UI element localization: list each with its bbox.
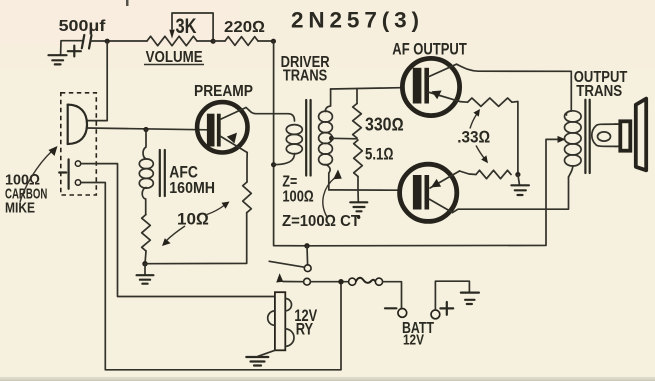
capacitor C1 500uF [68,35,92,56]
wire mike apex to preamp base [87,128,208,130]
inductor AFC 160MH [139,130,165,215]
node B junction dot after pot [211,39,216,44]
transformer DRIVER secondary [319,89,333,190]
wire 10ohm left to ground node [145,251,146,264]
arrow mike label to enclosure [20,146,58,202]
wire battery plus to ground [435,281,469,310]
wire pot to node [197,40,213,42]
node A junction dot at mike riser [105,39,110,44]
ground at battery plus [461,293,479,304]
transistor AF OUTPUT upper [402,58,460,115]
node F ground junction dot [142,261,147,266]
potentiometer 3K VOLUME [147,36,197,45]
wire center tap to divider [329,136,357,141]
svg-text:330Ω: 330Ω [365,115,404,135]
node D junction dot primary bottom [271,162,276,167]
wire preamp collector to driver primary [246,108,295,122]
svg-text:TRANS: TRANS [576,83,622,100]
svg-text:12V: 12V [403,333,424,349]
resistor .33ohm lower [476,170,511,178]
node G junction dot .33 common [515,172,520,177]
carbon mike element [68,105,87,144]
resistor 330ohm [353,104,362,139]
wire upper emitter to .33 [460,101,468,104]
resistor 10ohm right [243,182,252,213]
label 100ohm CARBON MIKE [5,172,47,217]
svg-text:10Ω: 10Ω [177,210,209,229]
transformer DRIVER core [306,100,310,176]
transformer OUTPUT secondary loop [592,124,617,146]
svg-text:160MH: 160MH [169,180,215,197]
svg-text:TRANS: TRANS [283,67,328,84]
arrow 10ohm to left resistor [162,226,185,246]
label OUTPUT TRANS [574,69,628,100]
wire cap to volume pot [91,40,148,42]
label DRIVER TRANS [281,54,330,84]
resistor 5.1ohm [354,140,363,177]
svg-text:Z=100Ω CT: Z=100Ω CT [282,213,360,230]
resistor 10ohm left [142,215,151,252]
transformer DRIVER primary [274,125,303,165]
wire preamp emitter to 10ohm right [246,153,248,183]
svg-text:2N257(3): 2N257(3) [291,8,419,33]
ground below node F [137,264,154,284]
wire node to 220 [213,40,225,42]
wire supply drop from node C [274,41,307,246]
arrow .33 label to lower resistor [476,146,488,164]
transistor AF OUTPUT lower [400,164,460,221]
arrow CT label to secondary [323,170,342,218]
svg-text:3K: 3K [176,15,197,38]
label BATT 12V [402,320,434,349]
svg-text:5.1Ω: 5.1Ω [365,145,394,164]
push-to-talk button [59,159,81,188]
arrow 10ohm to right resistor [207,202,230,215]
battery terminals [385,302,453,319]
node C junction dot [271,39,276,44]
label Z=100ohm [282,174,313,206]
svg-text:RY: RY [296,319,314,338]
wire secondary bottom to lower base [329,189,398,191]
wire fuse to battery minus [383,282,402,309]
switch relay contacts [269,243,311,285]
svg-text:500μf: 500μf [59,18,106,35]
label 12V RY [294,306,317,339]
wire lower emitter to .33 [460,171,477,175]
wire 220 to node C [258,40,273,42]
transformer OUTPUT core [585,100,589,173]
label AFC 160MH [169,163,215,198]
fuse [349,278,383,285]
wiper arm and 3K box [169,13,213,41]
svg-text:100Ω: 100Ω [282,189,313,206]
resistor .33ohm upper [468,98,513,106]
ground at .33 common [511,175,529,196]
svg-text:220Ω: 220Ω [224,19,265,36]
svg-text:MIKE: MIKE [5,200,35,217]
ground at 5.1 bottom [350,190,367,219]
label VOLUME [144,49,204,66]
wire 330 top stub [356,89,358,104]
node H junction dot fuse branch [338,279,343,284]
svg-text:VOLUME: VOLUME [146,49,203,66]
wire upper collector to output transformer [457,64,572,111]
ground at relay [246,350,275,365]
capacitor 500uF ground [49,41,83,65]
arrow .33 label to upper resistor [470,109,480,129]
wire switch lower contact to battery rail [81,183,341,370]
svg-text:PREAMP: PREAMP [194,83,253,100]
wire emitter return [145,213,247,264]
transistor PREAMP [197,102,247,152]
wire output CT to supply [307,136,566,246]
wire lower collector to output transformer bottom [453,177,569,213]
transformer OUTPUT primary [565,111,582,177]
svg-text:AF OUTPUT: AF OUTPUT [392,41,467,59]
microphone dashed enclosure [61,93,97,195]
wire secondary top to base rail [331,88,401,89]
speaker [615,99,646,171]
svg-text:AFC: AFC [169,163,198,182]
resistor 220ohm [225,37,258,46]
wire mike riser [87,41,107,120]
relay coil 12V RY [268,292,294,350]
wire switch upper contact to relay [81,164,275,297]
svg-text:.33Ω: .33Ω [457,128,490,147]
node E junction dot AFC tap [143,127,148,132]
wire 5.1 bottom stub [357,177,359,191]
wire .33 upper to junction [512,102,518,175]
wire switch to fuse [310,281,348,283]
